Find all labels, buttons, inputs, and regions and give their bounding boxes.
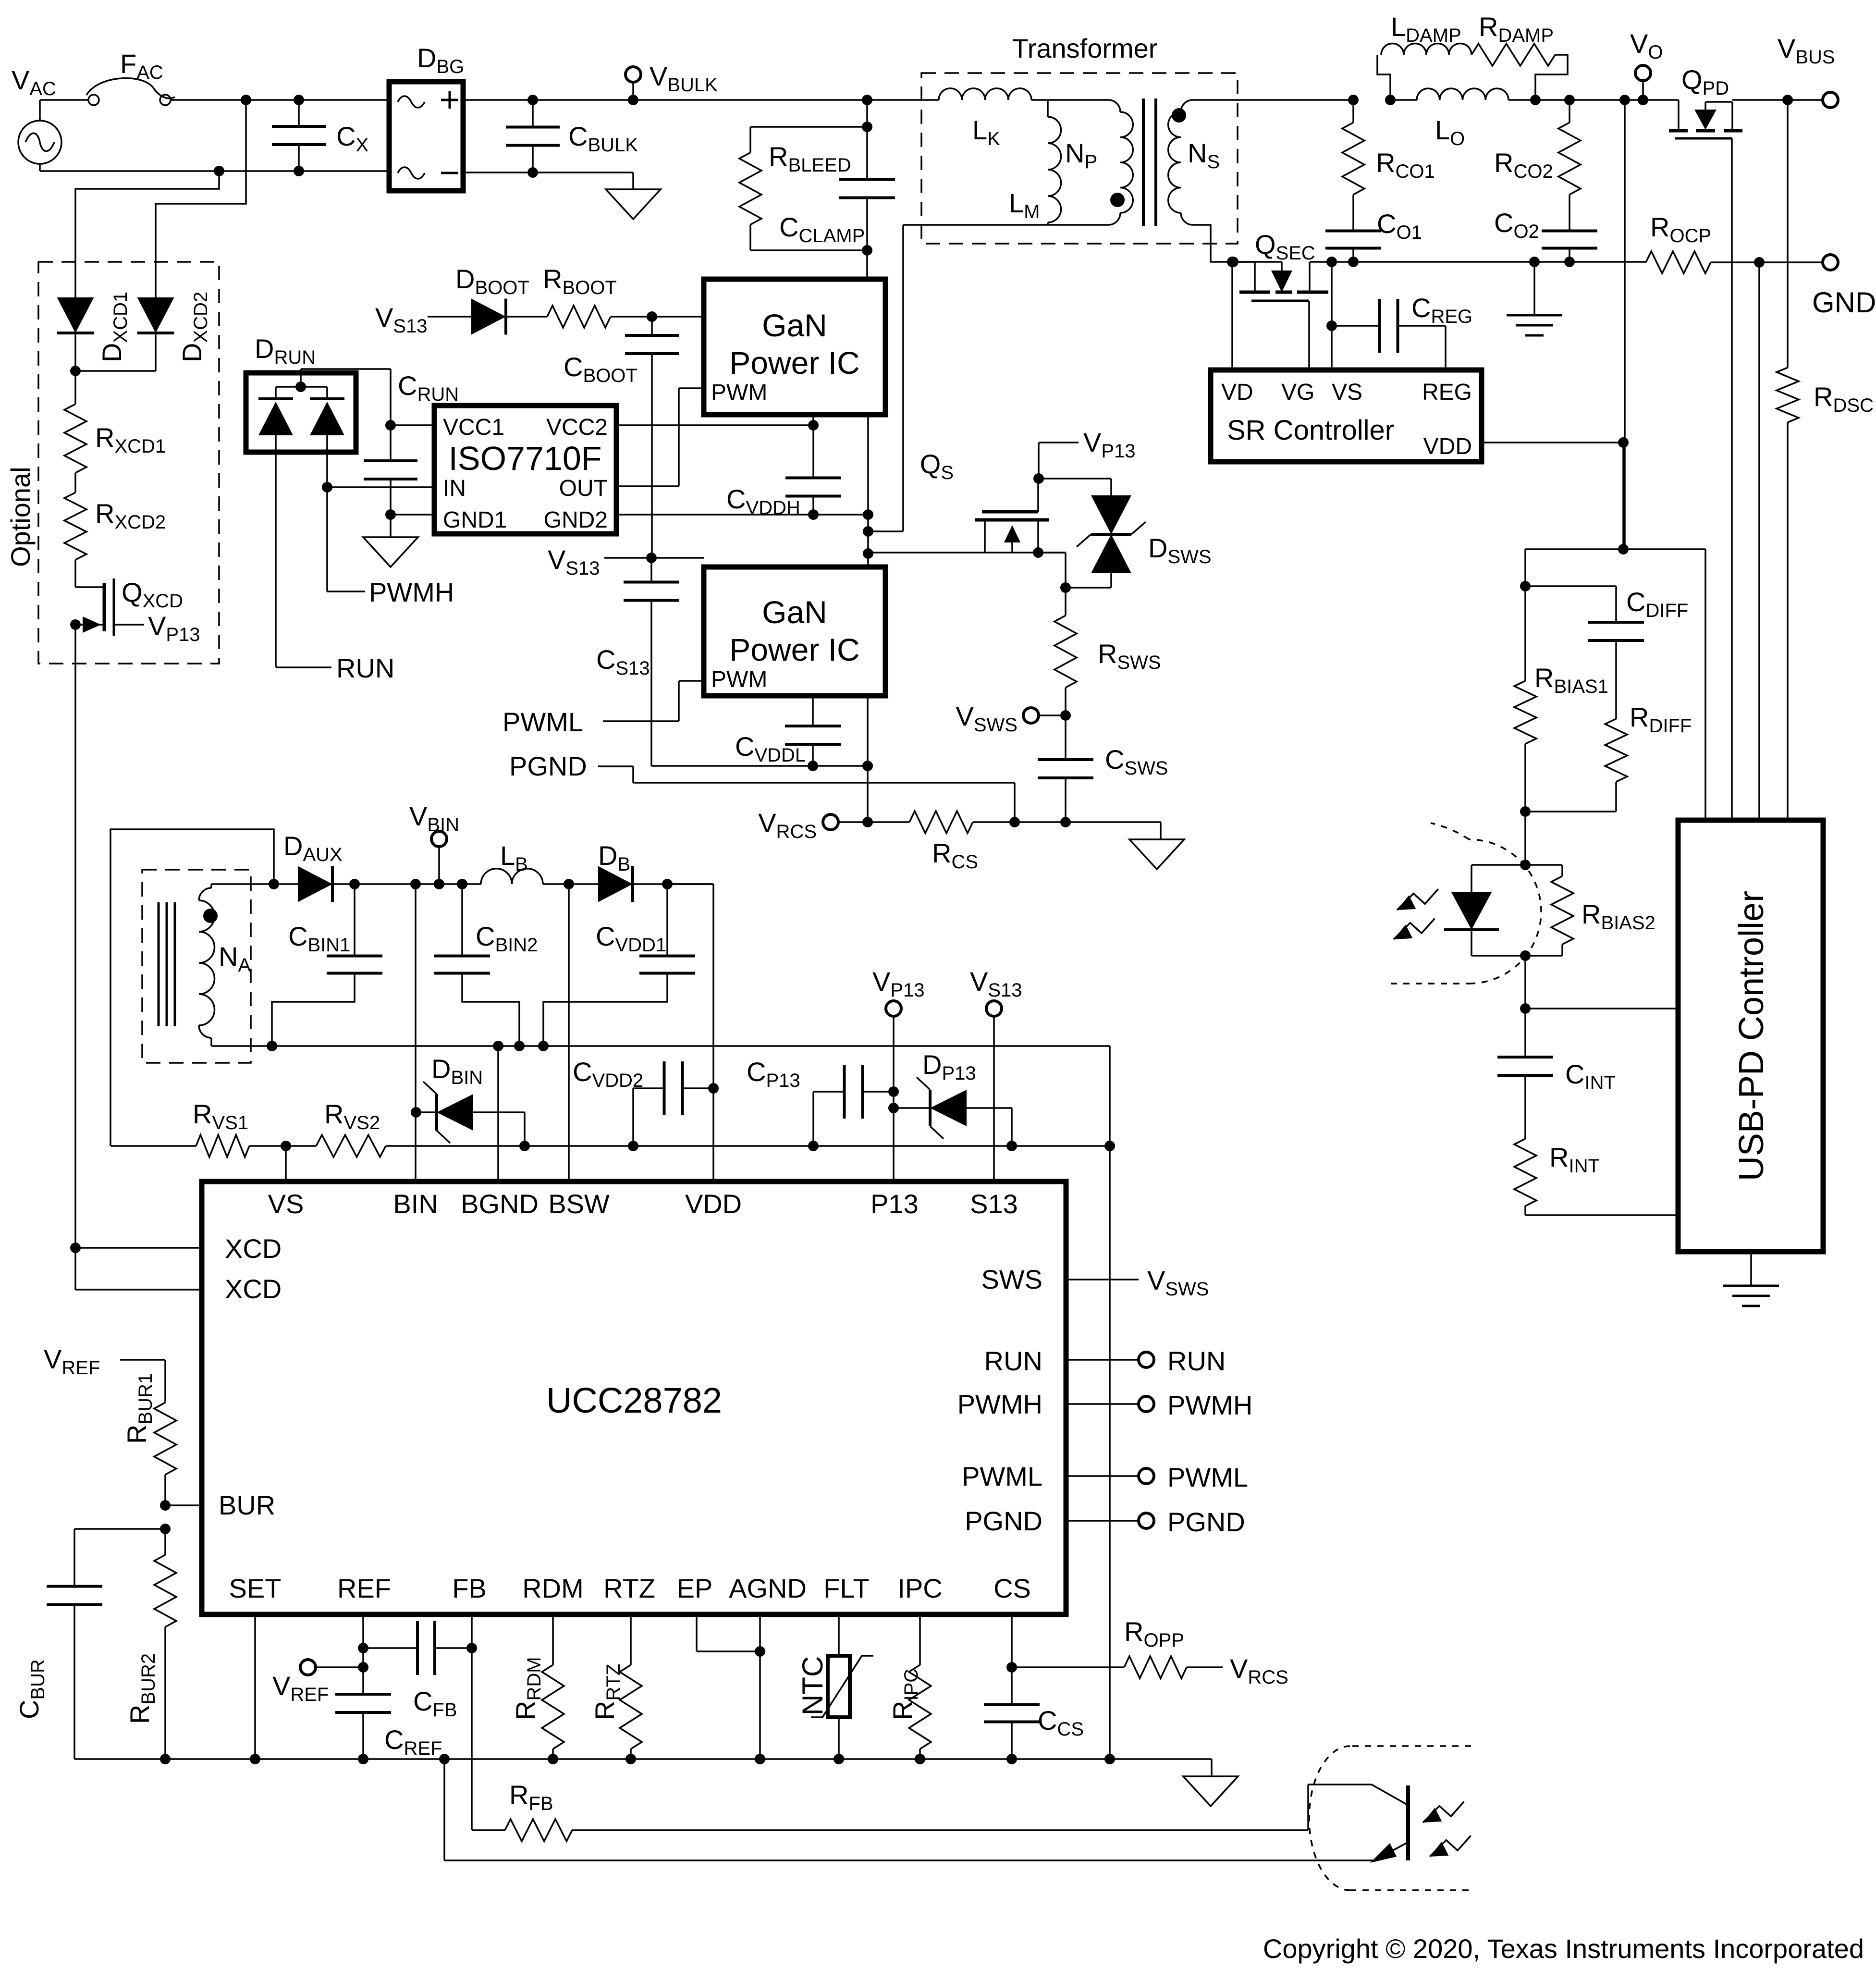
diode pair D_RUN box — [246, 373, 356, 452]
node QXCD source — [70, 619, 81, 630]
wire VO down to VDD — [1624, 100, 1626, 549]
capacitor C_VDD1 — [543, 884, 695, 1046]
label C_REF — [384, 1724, 442, 1759]
node rail CCS — [1006, 1754, 1017, 1764]
node BSW top — [564, 879, 574, 889]
wire VBUS rail — [1732, 99, 1823, 101]
zener D_BIN — [416, 1082, 473, 1143]
capacitor C_S13 — [624, 558, 679, 766]
node CBIN1 top — [349, 879, 360, 889]
label PWML — [503, 707, 583, 737]
label C_FB — [413, 1686, 457, 1721]
wire VP13 QS stub — [1039, 443, 1079, 479]
label R_CO1 — [1376, 148, 1435, 182]
node C_REG tap — [1326, 320, 1337, 331]
node rail IPC — [915, 1754, 925, 1764]
label V_BULK — [650, 61, 718, 96]
node bulk CBULK — [527, 95, 538, 105]
label L_B — [500, 840, 528, 875]
label C_DIFF — [1626, 587, 1688, 621]
wire LB to DB — [543, 883, 598, 885]
fuse F_AC — [86, 78, 175, 105]
opto transistor — [1370, 1785, 1408, 1863]
label R_INT — [1549, 1142, 1600, 1177]
wire bridge minus to gnd — [463, 172, 633, 189]
node RCO2 top — [1564, 95, 1575, 105]
node REF-CFB — [358, 1643, 368, 1653]
node CBIN2 bottom — [514, 1041, 525, 1051]
resistor R_DAMP — [1471, 44, 1555, 66]
resistor R_FB — [472, 1819, 605, 1841]
label Optional — [5, 467, 36, 567]
wire CBUR branch — [74, 1529, 165, 1569]
optional dashed box — [38, 262, 219, 664]
svg-text:GND: GND — [1812, 286, 1876, 319]
pin CS label — [993, 1573, 1031, 1603]
resistor R_BIAS1 — [1514, 586, 1536, 812]
wire VS row cont — [416, 1145, 1110, 1147]
wire BIN vertical — [415, 884, 417, 1182]
IC USB-PD Controller box — [1678, 820, 1823, 1252]
label R_VS2 — [324, 1099, 380, 1133]
pin SET label — [229, 1573, 282, 1603]
svg-text:XCD: XCD — [225, 1233, 282, 1264]
label R_VS1 — [193, 1099, 248, 1133]
node VS13 — [646, 553, 657, 563]
svg-text:RDM: RDM — [522, 1573, 584, 1603]
IC GaN Power IC low box — [704, 567, 885, 696]
wire QSEC source to rail — [1310, 261, 1332, 263]
label C_P13 — [747, 1057, 800, 1091]
node CBIN2 top — [457, 879, 467, 889]
label Power IC high — [729, 345, 859, 381]
svg-text:RUN: RUN — [336, 653, 394, 683]
pin VD label — [1221, 380, 1253, 405]
wire DXCD2 to node — [75, 333, 156, 371]
wire RINT to USBPD pin2 — [1525, 1214, 1678, 1216]
svg-text:UCC28782: UCC28782 — [546, 1380, 722, 1420]
label R_DAMP — [1479, 12, 1554, 46]
resistor R_OPP — [1012, 1656, 1223, 1678]
svg-text:AGND: AGND — [729, 1573, 807, 1603]
node row right — [1104, 1141, 1115, 1151]
wire VDD vertical — [667, 884, 713, 1182]
wire VS sense loop — [110, 829, 274, 1146]
label D_XCD2 — [177, 292, 211, 362]
capacitor C_BUR — [47, 1569, 102, 1759]
label R_BIAS2 — [1582, 899, 1655, 934]
pin VS label — [268, 1189, 304, 1219]
svg-text:RUN: RUN — [1167, 1346, 1226, 1376]
wire RBUR2 bottom — [164, 1653, 166, 1759]
svg-text:PWML: PWML — [1167, 1462, 1248, 1492]
label C_CLAMP — [779, 212, 865, 246]
pin FLT label — [823, 1573, 869, 1603]
wire VCC2 to GaN VDD — [616, 424, 813, 426]
svg-text:REG: REG — [1422, 380, 1472, 405]
capacitor C_O2 — [1542, 217, 1597, 262]
label GaN low — [762, 594, 827, 630]
label V_AC — [12, 65, 56, 99]
label PGND pin — [1167, 1507, 1245, 1537]
label PGND — [509, 751, 587, 781]
wire XCD feed2 — [156, 100, 246, 297]
node rail RDM — [548, 1754, 558, 1764]
node switch 1106 — [863, 526, 873, 537]
resistor R_DIFF — [1605, 658, 1627, 812]
label R_IPC — [887, 1669, 922, 1720]
label V_P13 top — [872, 966, 925, 1001]
node N_P polarity dot — [1110, 193, 1125, 207]
node LO left — [1385, 95, 1396, 105]
wire SR VDD out — [1482, 442, 1623, 443]
wire boot left — [428, 316, 471, 318]
node RCS right — [1009, 817, 1020, 827]
node rail CREF — [358, 1754, 368, 1764]
wire bulk rail — [463, 99, 867, 101]
resistor R_SWS — [1054, 588, 1077, 715]
label C_VDD1 — [596, 921, 666, 956]
wire LED top — [1471, 865, 1525, 893]
transistor Q_XCD — [75, 572, 144, 636]
wire N_P bottom — [903, 224, 1108, 226]
capacitor C_REG — [1332, 299, 1446, 370]
label C_VDD2 — [573, 1057, 643, 1091]
svg-text:SR Controller: SR Controller — [1227, 415, 1394, 446]
capacitor C_CS — [984, 1667, 1040, 1759]
resistor R_RDM — [542, 1614, 564, 1759]
terminal V_O — [1635, 65, 1651, 100]
wire clamp to GaN drain — [866, 250, 868, 279]
svg-text:RTZ: RTZ — [603, 1573, 655, 1603]
wire IN to ISO — [327, 486, 434, 488]
diode D_XCD2 — [137, 297, 174, 333]
label R_CS — [932, 838, 978, 873]
node top rail feed2 — [241, 95, 251, 105]
wire opto emitter run — [444, 1759, 1373, 1860]
svg-text:Copyright © 2020, Texas Instru: Copyright © 2020, Texas Instruments Inco… — [1263, 1933, 1864, 1964]
label Q_XCD — [122, 577, 183, 612]
node CVDD2 bottom — [628, 1141, 638, 1151]
svg-text:BSW: BSW — [548, 1189, 610, 1219]
node boot — [647, 311, 657, 322]
node GaN low source — [862, 761, 873, 771]
node VDD-VO join — [1618, 437, 1629, 448]
pin BUR label — [219, 1490, 275, 1520]
pin IPC label — [897, 1573, 942, 1603]
IC GaN Power IC high box — [704, 279, 885, 415]
svg-text:PWML: PWML — [962, 1461, 1042, 1491]
label V_SWS pin — [1147, 1265, 1209, 1300]
svg-text:Power IC: Power IC — [729, 345, 859, 381]
label L_DAMP — [1391, 12, 1461, 46]
node bottom rail CX — [294, 166, 304, 176]
node rail NTC — [834, 1754, 844, 1764]
zener D_P13 — [894, 1077, 967, 1139]
label Transformer — [1012, 33, 1158, 63]
wire switch node verticals — [867, 415, 869, 567]
wire NA bottom row — [0, 0, 0, 0]
label ISO7710F — [448, 440, 601, 477]
node rail SET — [250, 1754, 260, 1764]
label D_SWS — [1148, 533, 1212, 567]
wire RUN stub — [1066, 1359, 1139, 1361]
wire VO vert end — [1622, 443, 1624, 549]
resistor R_RTZ — [620, 1614, 642, 1759]
node CVDDL bottom — [808, 761, 818, 771]
pin AGND label — [729, 1573, 807, 1603]
label C_BULK — [568, 121, 638, 156]
label C_RUN — [398, 370, 459, 405]
capacitor C_BULK — [506, 100, 560, 172]
label R_OPP — [1124, 1616, 1184, 1651]
wire VREF bur — [120, 1360, 165, 1372]
wire QS source corner — [1038, 553, 1066, 588]
label R_RTZ — [589, 1664, 624, 1720]
svg-text:P13: P13 — [871, 1189, 919, 1219]
ground primary bulk — [606, 189, 661, 219]
wire QPD gate down to USBPD — [1731, 138, 1733, 820]
node LO right — [1530, 95, 1541, 105]
node rail AGND — [755, 1754, 765, 1764]
wire NA top — [211, 883, 274, 885]
svg-text:VG: VG — [1281, 380, 1314, 405]
resistor R_CS — [868, 811, 1015, 833]
label R_DSC — [1814, 382, 1874, 416]
wire row mid — [0, 0, 0, 0]
diode D_BOOT — [471, 299, 506, 335]
svg-text:GND2: GND2 — [544, 507, 608, 533]
wire opto to CINT — [1524, 956, 1526, 1009]
label F_AC — [120, 49, 163, 83]
label RUN — [336, 653, 394, 683]
label CX — [336, 121, 368, 156]
label R_RDM — [510, 1657, 545, 1720]
svg-text:FLT: FLT — [823, 1573, 869, 1603]
wire damp right jog — [1535, 55, 1568, 100]
label C_VDDH — [726, 484, 800, 518]
IC SR Controller box — [1211, 370, 1482, 462]
pin BGND label — [461, 1189, 539, 1219]
wire FB corner — [0, 0, 0, 0]
svg-text:VS: VS — [268, 1189, 304, 1219]
node XCD — [70, 366, 81, 376]
aux dashed box — [142, 870, 251, 1063]
node EP-AGND — [755, 1646, 765, 1657]
label V_BIN — [409, 801, 459, 836]
label D_BG — [417, 43, 464, 77]
wire to USBPD pin1 — [1525, 1008, 1678, 1009]
winding N_P — [1108, 100, 1133, 225]
node VBIN — [434, 879, 444, 889]
label V_RCS — [758, 808, 817, 842]
svg-text:SWS: SWS — [981, 1264, 1042, 1294]
wire BUR pin — [165, 1504, 202, 1506]
wire VDD node to USBPD — [1623, 549, 1705, 820]
resistor R_CO1 — [1342, 100, 1364, 217]
wire CBOOT to VS13 node — [651, 423, 653, 558]
capacitor C_VDDH — [785, 425, 841, 515]
capacitor C_RUN — [364, 369, 417, 515]
node SR VD — [1227, 257, 1238, 267]
svg-text:Power IC: Power IC — [729, 632, 859, 667]
wire CDIFF top — [1525, 586, 1616, 604]
svg-text:REF: REF — [337, 1573, 391, 1603]
winding N_A — [199, 884, 215, 1046]
node N_A polarity dot — [203, 909, 218, 923]
svg-text:RUN: RUN — [984, 1346, 1042, 1376]
svg-text:PGND: PGND — [509, 751, 587, 781]
label V_P13 QS — [1083, 427, 1136, 462]
wire BGND to AGND — [1109, 1146, 1111, 1759]
pin BIN label — [393, 1189, 438, 1219]
inductor L_DAMP — [1381, 44, 1471, 55]
pin VCC1 label — [443, 415, 504, 440]
node bulk clamp — [862, 95, 872, 105]
node RSWS top — [1060, 582, 1071, 593]
svg-text:NTC: NTC — [797, 1656, 829, 1715]
node VBUS-RDSC — [1782, 95, 1793, 105]
node VO term — [1638, 95, 1648, 105]
node VO branch — [1619, 95, 1630, 105]
svg-text:CS: CS — [993, 1573, 1031, 1603]
diode D_AUX — [274, 866, 332, 902]
wire clamp top — [750, 100, 867, 127]
node VREF node — [358, 1662, 368, 1673]
label R_BOOT — [543, 264, 617, 298]
bridge D_BG plus — [441, 91, 458, 109]
wire N_S bottom jog — [1193, 225, 1255, 262]
label GND — [1812, 286, 1876, 319]
capacitor C_CLAMP — [839, 127, 895, 250]
pin PGND label — [965, 1506, 1042, 1536]
node earth gnd sec — [1529, 257, 1540, 267]
resistor R_BIAS2 — [1525, 865, 1573, 956]
terminal V_BUS — [1823, 92, 1838, 108]
svg-text:PWMH: PWMH — [369, 577, 454, 607]
wire RUN from D_RUN — [276, 452, 331, 667]
label V_P13 QXCD — [148, 611, 200, 645]
ground GND1 — [363, 515, 418, 567]
svg-text:PWM: PWM — [711, 667, 767, 692]
resistor R_OCP — [1646, 251, 1759, 273]
pin P13 label — [871, 1189, 919, 1219]
pin IN label — [443, 476, 466, 501]
wire AGND rail — [74, 1758, 1212, 1760]
node bottom rail feed1 — [214, 166, 224, 176]
node CP13 right — [888, 1086, 899, 1097]
node CBIN1 bottom — [267, 1041, 277, 1051]
winding L_M — [1048, 100, 1061, 225]
transistor Q_SEC — [1239, 262, 1328, 370]
node opto bottom — [1520, 950, 1531, 961]
label D_AUX — [283, 831, 343, 865]
label NTC — [797, 1656, 829, 1715]
terminal V_REF — [300, 1660, 363, 1675]
wire boot to GaN — [652, 316, 704, 318]
resistor R_BUR1 — [154, 1372, 176, 1505]
wire USBPD gnd — [1750, 1252, 1752, 1286]
wire SR VS — [1331, 262, 1333, 370]
node VCC2-GaN — [808, 420, 819, 431]
pin PWM low label — [711, 667, 767, 692]
label V_RCS opp — [1230, 1653, 1288, 1688]
capacitor C_BIN2 — [434, 884, 519, 1046]
svg-text:ISO7710F: ISO7710F — [448, 440, 601, 477]
label Q_SEC — [1255, 229, 1315, 264]
wire PGND stub — [1066, 1520, 1139, 1522]
light arrows LED — [1394, 889, 1438, 939]
label D_P13 — [922, 1049, 976, 1084]
svg-text:BUR: BUR — [219, 1490, 275, 1520]
wire PWMH stub — [1066, 1403, 1139, 1405]
wire GND to USBPD — [1758, 262, 1760, 820]
terminal V_SWS — [1023, 708, 1066, 723]
svg-text:SET: SET — [229, 1573, 282, 1603]
node VDD-CDIFF — [1618, 544, 1629, 554]
resistor R_XCD2 — [64, 480, 86, 572]
label USB-PD Controller — [1732, 891, 1771, 1181]
svg-text:Optional: Optional — [5, 467, 36, 567]
wire VCC1 — [391, 424, 434, 426]
wire GND2 row — [616, 514, 868, 516]
LED diode opto — [1444, 892, 1499, 930]
node D_RUN top — [276, 373, 327, 399]
label C_BOOT — [564, 352, 638, 386]
bridge D_BG minus — [441, 172, 458, 174]
pin BSW label — [548, 1189, 610, 1219]
wire DB to VDD — [633, 883, 713, 885]
resistor R_BLEED — [739, 127, 761, 250]
capacitor C_BIN1 — [272, 884, 382, 1046]
label R_DIFF — [1630, 702, 1692, 737]
label D_BIN — [431, 1054, 483, 1088]
label V_S13 boot — [375, 302, 428, 337]
label D_B — [598, 840, 630, 875]
transformer core — [1143, 98, 1156, 226]
wire SET stub — [254, 1614, 256, 1759]
label PWML pin — [1167, 1462, 1248, 1492]
node DP13 bottom — [1006, 1141, 1017, 1151]
label C_BIN1 — [288, 921, 350, 956]
wire PGND label wire — [598, 766, 1015, 822]
node VCC1 — [385, 420, 396, 431]
pin RUN label — [984, 1346, 1042, 1376]
label R_BLEED — [769, 141, 851, 176]
node opto top — [1520, 860, 1531, 870]
wire SWS stub — [1066, 1279, 1139, 1280]
capacitor C_VDD2 — [633, 1061, 713, 1146]
node CP13 bottom — [808, 1141, 819, 1151]
label V_REF pin — [272, 1671, 329, 1705]
wire OUT jog to GaN PWM — [616, 388, 704, 486]
node switch 1152 — [863, 548, 873, 559]
svg-text:VDD: VDD — [1423, 434, 1472, 459]
svg-text:USB-PD Controller: USB-PD Controller — [1732, 891, 1771, 1181]
IC ISO7710F box — [434, 406, 616, 534]
pin EP label — [677, 1573, 713, 1603]
node GND-USBPD — [1754, 257, 1765, 268]
node bulk gnd — [527, 167, 538, 178]
terminal V_BIN — [431, 831, 447, 884]
node XCD pin1 — [70, 1243, 81, 1253]
capacitor CX — [272, 100, 326, 171]
wire QS to DSWS — [1039, 479, 1111, 495]
pin XCD label 1 — [225, 1233, 282, 1264]
label V_S13 top — [970, 966, 1022, 1001]
copyright — [1263, 1933, 1864, 1964]
label D_XCD1 — [97, 292, 131, 362]
